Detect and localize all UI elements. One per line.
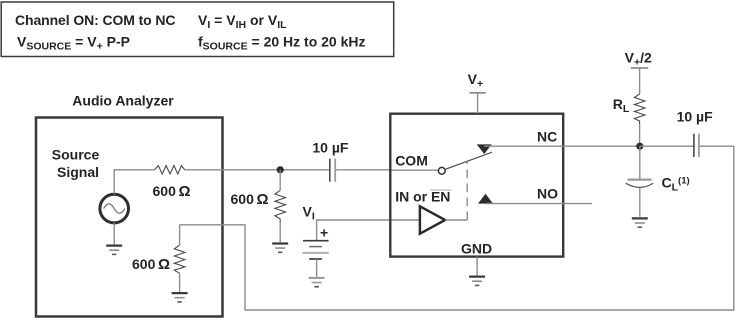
- svg-text:RL: RL: [613, 96, 630, 115]
- ground source: [106, 246, 122, 255]
- ground lower 600: [172, 293, 188, 302]
- svg-text:VSOURCE = V+ P-P: VSOURCE = V+ P-P: [17, 34, 130, 53]
- node junction NC/RL/CL: [636, 143, 643, 150]
- capacitor 10uF output: [694, 134, 699, 157]
- svg-text:Channel ON: COM to NC: Channel ON: COM to NC: [15, 12, 175, 28]
- svg-text:V+: V+: [468, 71, 483, 90]
- EN overbar: [430, 189, 451, 191]
- svg-text:10 µF: 10 µF: [677, 108, 714, 124]
- wire NO stub: [486, 203, 592, 205]
- battery VI: [303, 241, 329, 278]
- wire source to R 600: [114, 169, 155, 171]
- svg-text:+: +: [320, 225, 328, 241]
- wire buffer output: [445, 219, 467, 221]
- wire R600 to coupling cap: [185, 169, 329, 171]
- capacitor CL polarized: [626, 180, 653, 217]
- wire NC to junction: [484, 145, 640, 147]
- wire junction to output cap: [640, 145, 694, 147]
- wire junction down to CL: [639, 146, 641, 179]
- switch IC box U1: [390, 114, 563, 257]
- Audio Analyzer box: [36, 118, 223, 317]
- svg-text:Source: Source: [52, 146, 100, 162]
- resistor 600 ohm lower (termination in analyzer): [174, 225, 185, 293]
- svg-text:VI = VIH or VIL: VI = VIH or VIL: [198, 12, 287, 31]
- resistor 600 ohm shunt: [275, 170, 286, 244]
- resistor 600 ohm series: [155, 166, 185, 174]
- wire GND pin: [476, 257, 478, 277]
- source VG1 sine generator: [100, 194, 129, 223]
- switch blade: [445, 152, 492, 169]
- wire RL to junction: [639, 124, 641, 146]
- power V+ rail symbol: [470, 93, 486, 114]
- svg-text:CL(1): CL(1): [662, 174, 690, 193]
- NO contact triangle: [478, 194, 493, 204]
- conditions note box: [1, 2, 394, 57]
- svg-text:600Ω: 600Ω: [231, 191, 269, 208]
- power V+/2 rail symbol: [631, 68, 648, 94]
- svg-text:VI: VI: [303, 204, 315, 223]
- wire source bottom to ground: [113, 223, 115, 246]
- wire source top: [113, 170, 115, 195]
- NC contact triangle: [477, 144, 492, 154]
- dashed control line: [466, 161, 468, 220]
- wire VI to IN pin: [317, 220, 420, 240]
- ground battery: [309, 278, 325, 287]
- resistor RL: [634, 94, 645, 124]
- svg-text:10 µF: 10 µF: [312, 139, 349, 155]
- node junction at shunt 600: [277, 166, 284, 173]
- svg-text:600Ω: 600Ω: [153, 183, 191, 200]
- switch pole circle COM: [438, 167, 445, 174]
- ground shunt 600: [272, 244, 288, 253]
- svg-text:V+/2: V+/2: [625, 50, 652, 69]
- ground IC: [469, 277, 485, 286]
- svg-text:NO: NO: [537, 185, 558, 201]
- svg-text:fSOURCE = 20 Hz to 20 kHz: fSOURCE = 20 Hz to 20 kHz: [198, 34, 366, 53]
- svg-text:IN or EN: IN or EN: [395, 189, 450, 205]
- wire output cap to right edge: [699, 145, 733, 147]
- svg-text:NC: NC: [537, 129, 557, 145]
- svg-text:GND: GND: [461, 240, 492, 256]
- svg-text:600Ω: 600Ω: [132, 256, 170, 273]
- wire return: lower 600 top, out of box, down and along bottom: [180, 146, 734, 310]
- ground CL: [632, 218, 648, 227]
- svg-text:Audio Analyzer: Audio Analyzer: [72, 93, 174, 109]
- wire cap to COM pin: [336, 169, 391, 171]
- svg-text:COM: COM: [395, 153, 428, 169]
- capacitor 10uF input coupling: [330, 159, 335, 182]
- buffer driver inside IC: [420, 206, 445, 233]
- wire COM inside box to switch pole: [391, 169, 439, 171]
- svg-text:Signal: Signal: [57, 164, 99, 180]
